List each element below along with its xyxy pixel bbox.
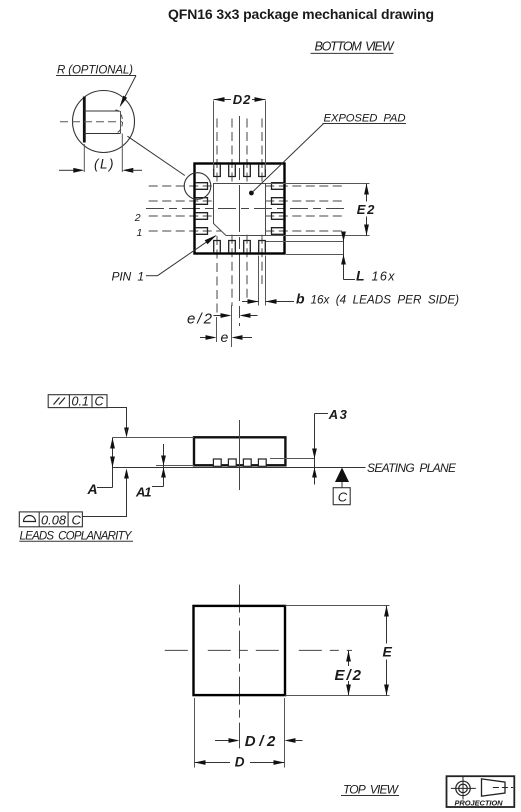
label R (OPTIONAL) [56,65,136,108]
fcf parallelism frame // 0.1 C [48,394,129,437]
body top extension line [113,437,195,439]
dimension E [285,606,392,696]
svg-text:A: A [87,481,98,497]
svg-text:C: C [72,513,82,528]
svg-text:D: D [235,755,245,770]
dimension E2 [266,184,375,236]
top view vertical centerline [239,585,241,749]
exposed pad outline with pin1 chamfer [214,184,266,236]
svg-text:(L): (L) [94,157,114,172]
svg-text:2: 2 [134,212,141,224]
bottom side leads [214,241,266,253]
seating plane line [113,467,366,469]
dimension (L) [59,134,142,173]
svg-text:e: e [221,329,229,345]
svg-text:E/2: E/2 [335,667,362,684]
package outline [195,164,285,254]
svg-text:D/2: D/2 [245,733,276,750]
vertical centerline of package [239,116,241,326]
label EXPOSED PAD [253,113,407,193]
side view lead squares [213,459,266,466]
svg-text:E: E [383,644,393,660]
svg-text:L: L [356,268,365,284]
side view body [194,437,285,465]
right side leads [272,183,284,235]
pin number 1 [137,227,143,239]
svg-text:e/2: e/2 [187,311,213,328]
left side leads [196,183,208,235]
projection symbol box [447,776,515,807]
fcf coplanarity frame 0.08 C [19,469,129,528]
seating plane datum triangle [335,468,349,483]
dimension D2 [214,92,266,169]
svg-text:R (OPTIONAL): R (OPTIONAL) [57,65,133,77]
exposed pad center dot [249,191,254,196]
svg-text:0.1: 0.1 [72,394,89,408]
left edge extension line [194,698,196,768]
detail leader to package small circle [127,136,184,175]
svg-text:SEATING PLANE: SEATING PLANE [367,461,457,475]
svg-text:E2: E2 [357,202,375,217]
svg-text:PROJECTION: PROJECTION [455,799,504,808]
svg-text:A1: A1 [135,484,152,499]
svg-text:TOP VIEW: TOP VIEW [343,783,400,797]
top view square [194,606,286,695]
detail: dashed radius arc [116,110,123,133]
svg-text:BOTTOM VIEW: BOTTOM VIEW [315,40,395,54]
datum letter box C [333,482,350,505]
dimension A1 [135,444,166,499]
view label TOP VIEW [341,783,400,797]
detail: lead centerline dashes [60,121,122,123]
svg-text:QFN16 3x3 package mechanical d: QFN16 3x3 package mechanical drawing [168,6,434,22]
dimension D/2 [215,733,303,750]
right edge extension line [284,698,286,768]
lead row centerlines left of package [149,186,221,231]
svg-text:16x: 16x [372,269,396,283]
dimension e [200,317,252,347]
dimension D [195,755,285,770]
detail: lead top and bottom lines [84,111,120,134]
dimension e/2 [187,305,258,328]
pin number 2 [134,212,141,224]
lead column centerlines above package [217,119,262,185]
side view centerline [239,420,241,490]
svg-text:0.08: 0.08 [41,513,67,528]
svg-text:C: C [95,394,105,408]
lead column centerlines below package [217,235,262,317]
small circle on package lead [184,173,211,200]
dimension L 16x [266,232,395,284]
svg-text:16x (4 LEADS PER SIDE): 16x (4 LEADS PER SIDE) [311,293,460,306]
svg-text:LEADS COPLANARITY: LEADS COPLANARITY [20,531,133,543]
title [168,6,434,22]
lead row centerlines right of package [265,186,344,231]
top side leads [214,165,266,177]
horizontal centerline of package [146,208,344,210]
svg-text:D2: D2 [233,92,251,107]
svg-text:PIN 1: PIN 1 [112,269,145,283]
label LEADS COPLANARITY [19,531,133,543]
svg-text:A3: A3 [328,407,348,422]
svg-text:1: 1 [137,227,143,239]
dimension A3 [312,407,347,484]
label PIN 1 with leader arrow [112,235,217,284]
detail: package edge thick line [83,97,86,143]
label SEATING PLANE [367,461,457,475]
detail circle R [73,91,135,153]
view label BOTTOM VIEW [311,40,395,54]
body bottom extension line [156,465,194,467]
svg-text:b: b [296,291,305,307]
dimension b 16x [242,256,459,307]
dimension E/2 [335,651,362,696]
lead top line right [270,458,315,460]
top view horizontal centerline [165,649,352,651]
dimension A [87,438,115,497]
svg-text:C: C [338,490,348,505]
svg-text:EXPOSED PAD: EXPOSED PAD [324,113,406,125]
